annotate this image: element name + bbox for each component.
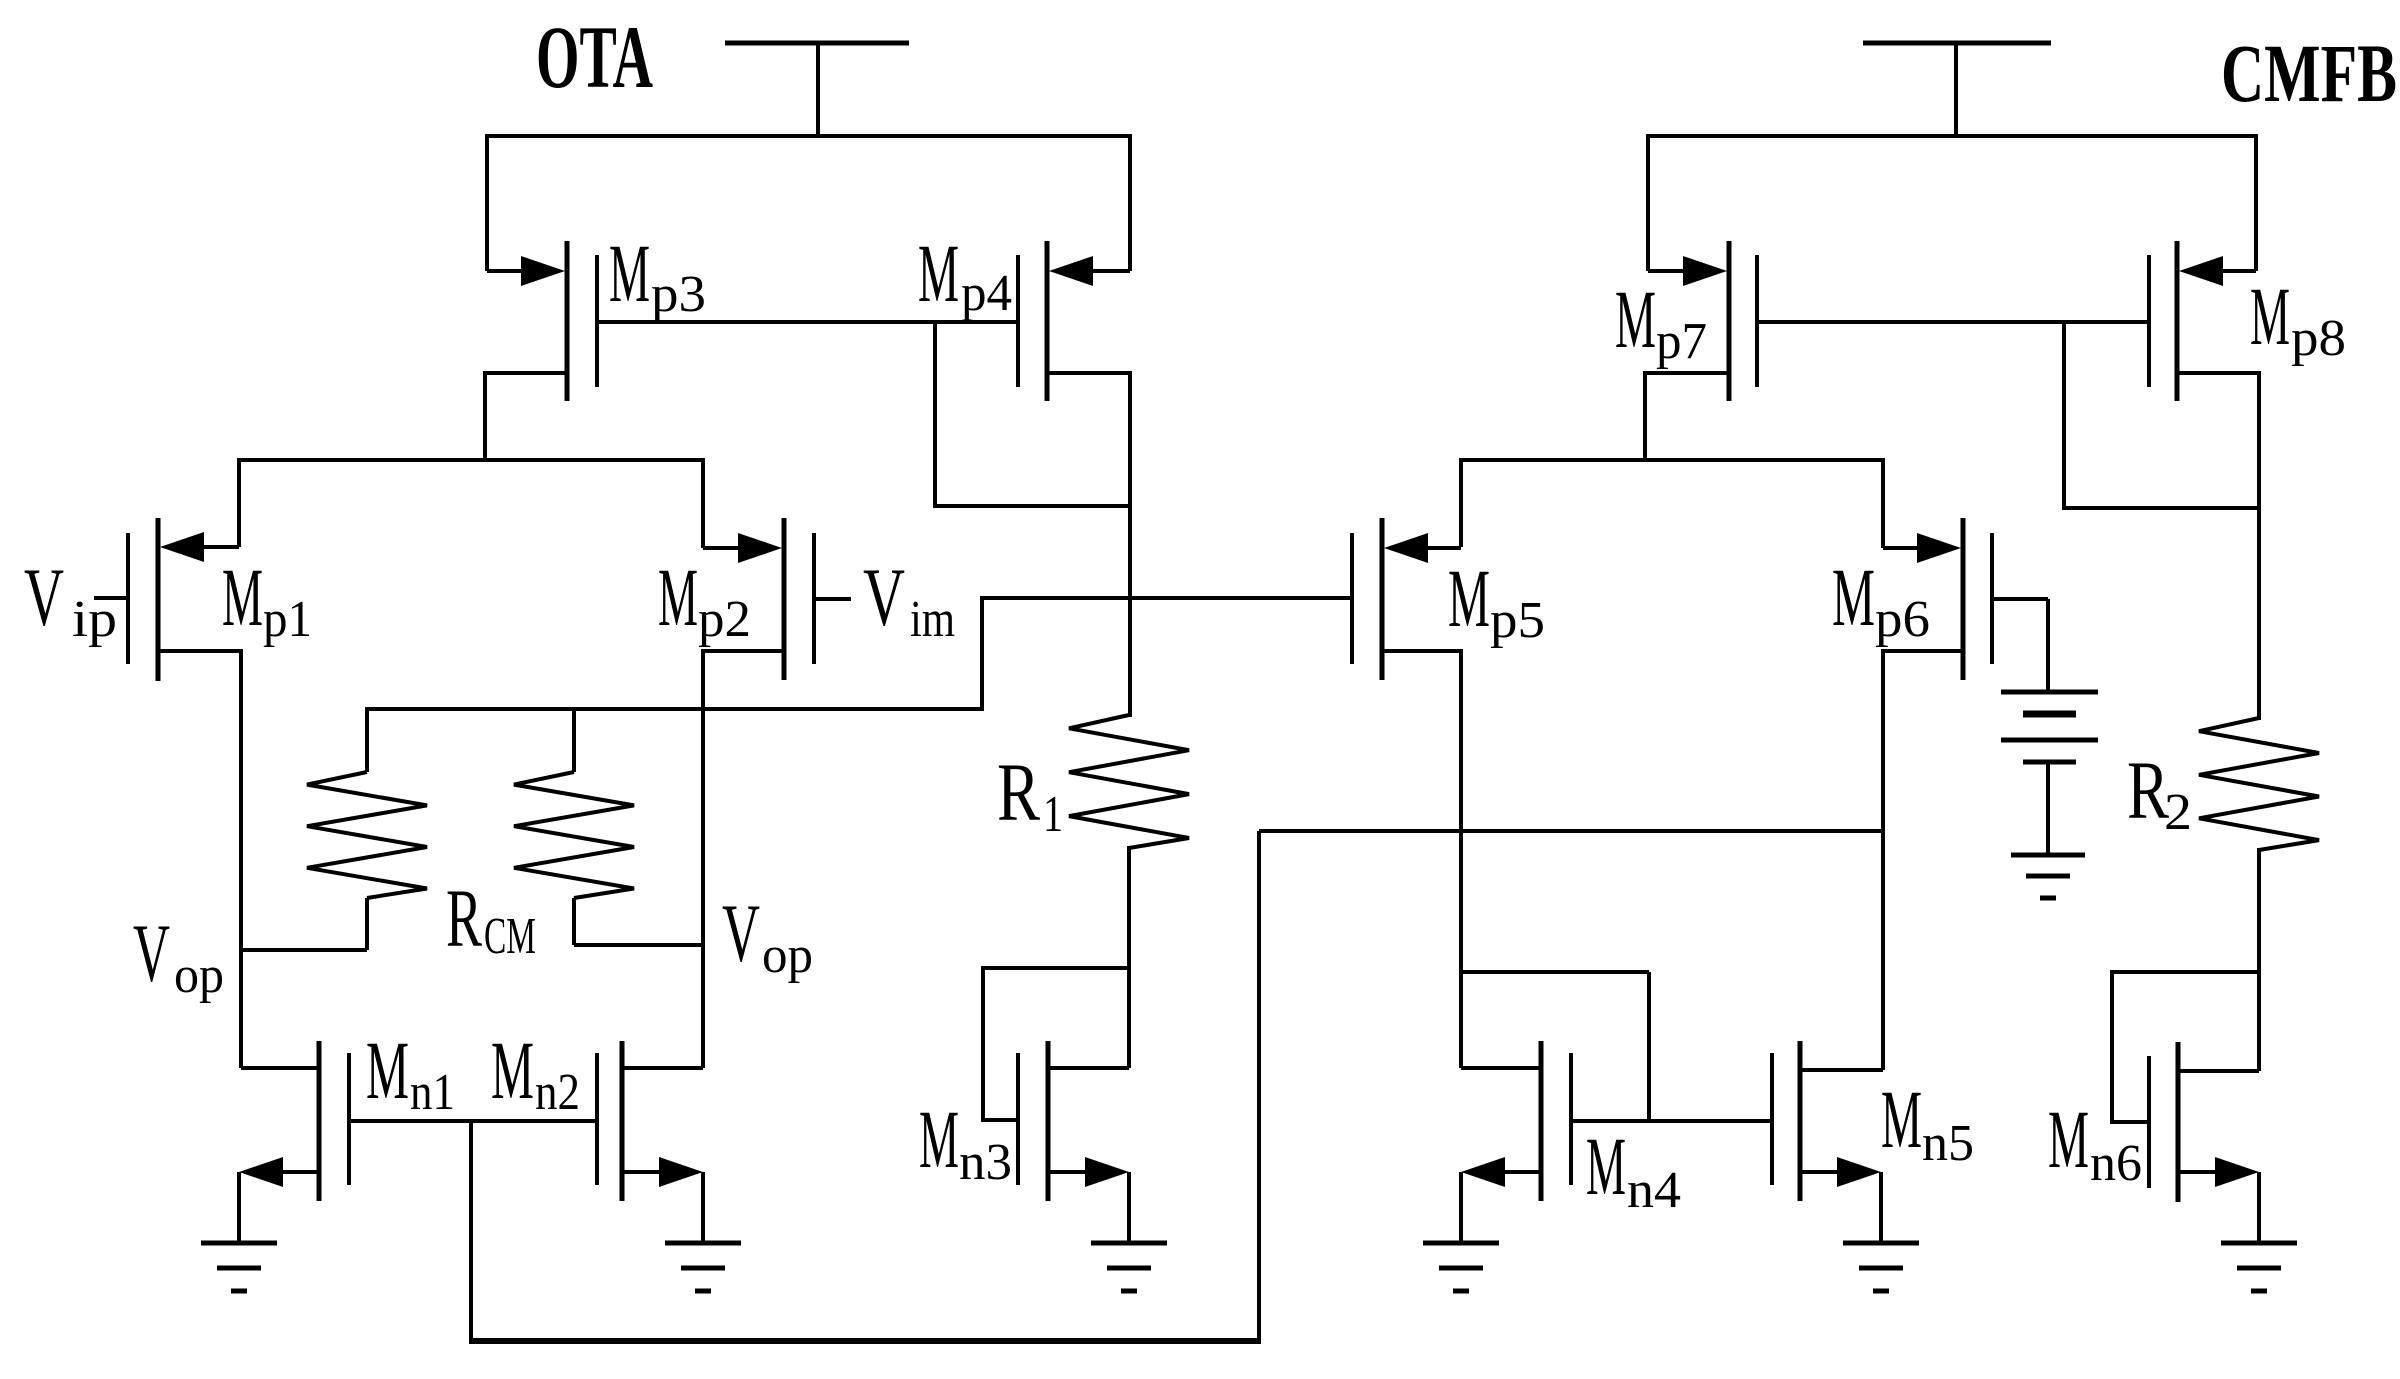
wire Mp8 drain to R2 <box>2257 371 2261 720</box>
label Vop left <box>133 907 224 1004</box>
label Mp3 <box>609 227 706 323</box>
wire Mp6 drain to Mn5 drain <box>1881 649 1885 1070</box>
svg-text:OTA: OTA <box>536 9 653 107</box>
ground under Mn4 <box>1423 1243 1499 1291</box>
label Mp2 <box>658 551 751 648</box>
resistor RCM left <box>307 707 427 950</box>
label Mp8 <box>2250 270 2346 367</box>
label Vip input <box>24 551 117 648</box>
transistor Mp4 <box>1018 241 1130 401</box>
wire VDD rail OTA <box>485 134 1132 138</box>
svg-text:M: M <box>366 1024 409 1116</box>
wire RCM top common node <box>365 707 982 711</box>
power VDD symbol (OTA) <box>725 43 909 138</box>
svg-text:p6: p6 <box>1875 591 1930 648</box>
svg-text:M: M <box>1615 273 1656 365</box>
svg-text:M: M <box>918 227 959 319</box>
svg-text:M: M <box>1832 551 1875 643</box>
wire rail to Mp1 source <box>237 458 241 547</box>
wire Mn6 source to ground <box>2257 1172 2261 1245</box>
wire Mp7-Mp8 gate line <box>1757 320 2149 324</box>
svg-text:M: M <box>2048 1093 2089 1185</box>
label Mn6 <box>2048 1093 2142 1192</box>
transistor Mn3 <box>1018 1041 1129 1201</box>
svg-text:V: V <box>722 887 760 979</box>
label Mn1 <box>366 1024 455 1121</box>
battery VCM reference <box>2001 599 2098 857</box>
label Mn3 <box>919 1093 1012 1191</box>
wire Mp3-Mp4 gate line <box>597 320 1018 324</box>
ground under Mn6 <box>2221 1243 2297 1291</box>
power VDD symbol (CMFB) <box>1863 43 2051 138</box>
svg-text:p5: p5 <box>1490 592 1545 649</box>
svg-text:R: R <box>446 872 482 964</box>
label Mn4 <box>1586 1120 1681 1219</box>
label Mp4 <box>918 227 1012 322</box>
svg-text:p4: p4 <box>961 265 1012 322</box>
wire Mn3 gate-drain connection <box>983 966 1131 1122</box>
label Mp7 <box>1615 273 1707 370</box>
wire R2 to Mn6 drain <box>2257 848 2261 1071</box>
ground under battery <box>2011 855 2085 898</box>
wire Mp4 drain to R1 <box>1128 371 1132 717</box>
ground under Mn5 <box>1843 1243 1919 1291</box>
svg-text:M: M <box>609 227 650 319</box>
transistor Mp3 <box>485 241 597 462</box>
svg-text:M: M <box>1881 1073 1922 1165</box>
wire Mp1 drain to Mn1 drain (Vop left) <box>239 649 243 1068</box>
transistor Mn5 <box>1772 1041 1883 1201</box>
label R2 <box>2127 744 2192 841</box>
ground under Mn1 <box>201 1243 277 1291</box>
wire Mp8 gate-drain connection <box>2064 322 2259 510</box>
wire Mn5 source to ground <box>1879 1172 1883 1245</box>
wire rail to Mp4 source <box>1128 134 1132 271</box>
label Mn5 <box>1881 1073 1974 1172</box>
label Mp6 <box>1832 551 1930 648</box>
svg-text:n3: n3 <box>959 1134 1012 1191</box>
svg-text:2: 2 <box>2164 784 2192 841</box>
wire Mp4 gate-drain connection <box>935 322 1129 508</box>
wire rail to Mp8 source <box>2254 134 2258 271</box>
svg-text:M: M <box>1586 1120 1626 1212</box>
wire VCM sense jog <box>982 596 1352 711</box>
transistor Mn2 <box>597 1041 703 1201</box>
label Mp5 <box>1448 552 1545 649</box>
svg-text:n1: n1 <box>410 1064 455 1121</box>
transistor Mn6 <box>2149 1042 2259 1202</box>
svg-text:op: op <box>762 927 813 984</box>
wire rail to Mp3 source <box>485 134 489 271</box>
svg-text:n2: n2 <box>535 1064 580 1121</box>
label Mn2 <box>491 1024 580 1121</box>
transistor Mn1 <box>239 1041 349 1201</box>
transistor Mn4 <box>1461 1041 1571 1201</box>
wire CMFB output line <box>1259 829 1883 833</box>
wire VDD rail CMFB <box>1646 134 2258 138</box>
transistor Mp7 <box>1645 241 1757 462</box>
svg-text:V: V <box>24 551 64 643</box>
svg-text:im: im <box>910 591 955 648</box>
svg-text:M: M <box>491 1024 534 1116</box>
svg-text:R: R <box>997 746 1040 838</box>
svg-text:V: V <box>863 551 905 643</box>
wire Mn1-Mn2 gate line <box>349 1119 597 1123</box>
wire Vop-left node <box>239 948 367 952</box>
wire Mn2 source to ground <box>701 1172 705 1245</box>
wire Mp5-Mp6 source rail <box>1459 458 1885 462</box>
wire rail to Mp5 source <box>1459 458 1463 547</box>
transistor Mp8 <box>2149 241 2259 401</box>
svg-text:p1: p1 <box>263 591 312 648</box>
transistor Mp2 <box>703 518 851 680</box>
label Mp1 <box>222 551 312 648</box>
label Vop right <box>722 887 813 984</box>
svg-text:M: M <box>2250 270 2290 362</box>
svg-text:op: op <box>174 947 224 1004</box>
wire CMFB feedback to Mn1/Mn2 gates <box>469 831 1261 1343</box>
wire Vop-right node <box>574 943 705 947</box>
svg-text:p2: p2 <box>698 591 751 648</box>
svg-text:n6: n6 <box>2090 1135 2142 1192</box>
transistor Mp6 <box>1883 518 2048 680</box>
wire R1 to Mn3 drain <box>1127 846 1131 1068</box>
wire Mn4 gate-drain connection <box>1461 972 1649 1123</box>
transistor Mp1 <box>94 518 241 681</box>
wire rail to Mp6 source <box>1881 458 1885 548</box>
svg-text:CMFB: CMFB <box>2221 27 2397 119</box>
svg-text:M: M <box>919 1093 959 1185</box>
svg-text:1: 1 <box>1043 786 1063 843</box>
wire rail to Mp7 source <box>1646 134 1650 271</box>
svg-text:p8: p8 <box>2291 310 2346 367</box>
transistor Mp5 <box>1352 518 1461 680</box>
svg-text:p3: p3 <box>651 266 706 323</box>
svg-text:CM: CM <box>484 908 536 965</box>
wire Mn3 source to ground <box>1127 1172 1131 1245</box>
label Vim input <box>863 551 955 648</box>
svg-text:p7: p7 <box>1656 313 1707 370</box>
resistor RCM right <box>514 707 634 945</box>
wire Mp1-Mp2 source rail <box>237 458 705 462</box>
resistor R2 <box>2199 718 2319 850</box>
svg-text:V: V <box>133 907 170 999</box>
wire Mn6 gate-drain connection <box>2112 970 2261 1124</box>
resistor R1 <box>1069 715 1189 848</box>
wire Mn1 source to ground <box>237 1172 241 1245</box>
svg-text:M: M <box>1448 552 1490 644</box>
svg-text:M: M <box>658 551 698 643</box>
svg-text:M: M <box>222 551 263 643</box>
label RCM <box>446 872 536 965</box>
label R1 <box>997 746 1063 843</box>
svg-text:n5: n5 <box>1922 1115 1974 1172</box>
wire Mp2 drain to Mn2 drain (Vop right) <box>701 649 705 1068</box>
label CMFB <box>2221 27 2397 119</box>
label OTA <box>536 9 653 107</box>
ground under Mn3 <box>1091 1243 1167 1291</box>
wire Mn4 source to ground <box>1459 1172 1463 1245</box>
ground under Mn2 <box>665 1243 741 1291</box>
wire rail to Mp2 source <box>701 458 705 548</box>
svg-text:ip: ip <box>72 591 117 648</box>
wire Mn4-Mn5 gate line <box>1571 1119 1772 1123</box>
svg-text:n4: n4 <box>1627 1162 1681 1219</box>
wire Mp5 drain to Mn4 drain <box>1459 649 1463 1068</box>
